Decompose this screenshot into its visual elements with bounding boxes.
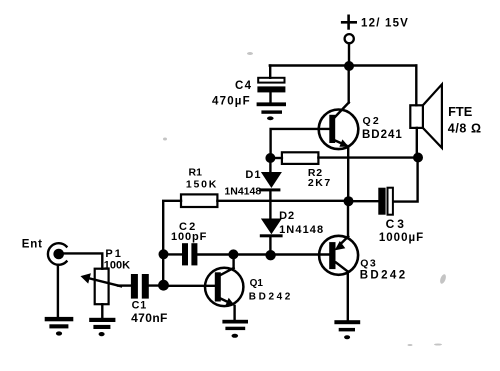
wire Q2 base xyxy=(271,129,330,158)
wire wiper to C1 xyxy=(118,284,131,286)
svg-text:C4: C4 xyxy=(235,80,252,92)
svg-text:Ent: Ent xyxy=(22,238,43,250)
svg-text:1N4148: 1N4148 xyxy=(279,224,324,236)
wire speaker top xyxy=(415,66,417,106)
wire R2 left xyxy=(270,157,282,159)
node output junction xyxy=(344,196,354,206)
wire Q1 base xyxy=(164,285,215,287)
svg-text:4/8 Ω: 4/8 Ω xyxy=(448,121,482,135)
wire top rail xyxy=(270,64,417,66)
wire C1 right xyxy=(149,284,164,286)
transistor Q1 xyxy=(205,268,243,306)
node C2 left junction xyxy=(159,249,169,259)
svg-text:Q3: Q3 xyxy=(360,257,377,269)
ground Q3 xyxy=(334,320,360,339)
node supply junction xyxy=(344,61,354,71)
svg-text:470nF: 470nF xyxy=(131,311,168,325)
svg-text:D2: D2 xyxy=(279,210,295,222)
wire Q3 emitter top xyxy=(347,201,349,237)
wire Q1 collector xyxy=(232,254,234,268)
wire Q1 emitter down xyxy=(233,306,235,320)
wire speaker to C3 xyxy=(393,158,417,202)
resistor R2 xyxy=(282,152,319,164)
node D2 bottom junction xyxy=(265,250,275,260)
svg-text:BD242: BD242 xyxy=(360,269,408,281)
svg-text:C1: C1 xyxy=(132,300,148,312)
wire Q3 collector down xyxy=(347,272,349,321)
svg-text:Q1: Q1 xyxy=(250,278,264,289)
ground Ent xyxy=(45,317,74,336)
ground Q1 xyxy=(222,320,248,338)
connector Ent xyxy=(48,243,67,265)
speaker FTE xyxy=(410,84,442,148)
resistor R1 xyxy=(181,194,217,207)
wire C4 stem xyxy=(269,66,271,78)
capacitor C2 xyxy=(182,243,197,265)
node Q1 collector junction xyxy=(228,249,238,259)
svg-text:P1: P1 xyxy=(105,248,122,260)
svg-text:R1: R1 xyxy=(189,167,203,179)
wire C2 right to Q3 base xyxy=(197,253,329,255)
wire R2 to speaker xyxy=(318,156,418,158)
svg-text:BD241: BD241 xyxy=(362,129,403,141)
svg-text:1000µF: 1000µF xyxy=(379,232,424,244)
svg-text:Q2: Q2 xyxy=(363,115,381,127)
wire node E to node F xyxy=(162,254,164,285)
svg-text:150K: 150K xyxy=(186,178,218,190)
ground P1 xyxy=(89,318,115,336)
wire C3 left xyxy=(349,200,379,202)
transistor Q3 xyxy=(319,236,358,275)
svg-text:C3: C3 xyxy=(386,217,407,231)
diode D1 xyxy=(260,158,282,219)
capacitor C1 xyxy=(131,274,149,299)
wire Q2 emitter down xyxy=(347,147,349,202)
wire speaker bottom xyxy=(416,128,418,158)
svg-text:100K: 100K xyxy=(104,260,130,272)
potentiometer P1 xyxy=(81,269,122,305)
wire P1 bottom xyxy=(101,304,103,318)
svg-text:100pF: 100pF xyxy=(171,231,207,243)
svg-text:FTE: FTE xyxy=(448,104,473,119)
transistor Q2 xyxy=(319,103,359,150)
capacitor C4 xyxy=(257,78,285,103)
wire R1 left xyxy=(163,201,181,255)
node speaker junction xyxy=(413,153,423,163)
wire Q2 collector xyxy=(348,66,350,103)
svg-text:12/ 15V: 12/ 15V xyxy=(361,18,409,30)
diode D2 xyxy=(260,219,283,256)
supply plus symbol xyxy=(342,16,356,29)
svg-text:1N4148: 1N4148 xyxy=(224,185,261,197)
svg-text:2K7: 2K7 xyxy=(308,177,332,189)
wire input xyxy=(64,253,102,268)
node R2/D1 junction xyxy=(265,153,275,163)
svg-text:BD242: BD242 xyxy=(249,291,293,302)
node Q1 base junction xyxy=(158,280,169,291)
svg-text:470µF: 470µF xyxy=(212,95,251,107)
capacitor C3 xyxy=(378,188,393,215)
supply terminal xyxy=(345,34,354,43)
svg-text:D1: D1 xyxy=(245,169,261,181)
wire Ent ground stem xyxy=(57,265,59,317)
wire supply stem xyxy=(348,44,350,66)
ground C4 xyxy=(257,102,286,120)
wire node E to C2 xyxy=(163,253,182,255)
wire feedback R1 right xyxy=(217,200,348,202)
